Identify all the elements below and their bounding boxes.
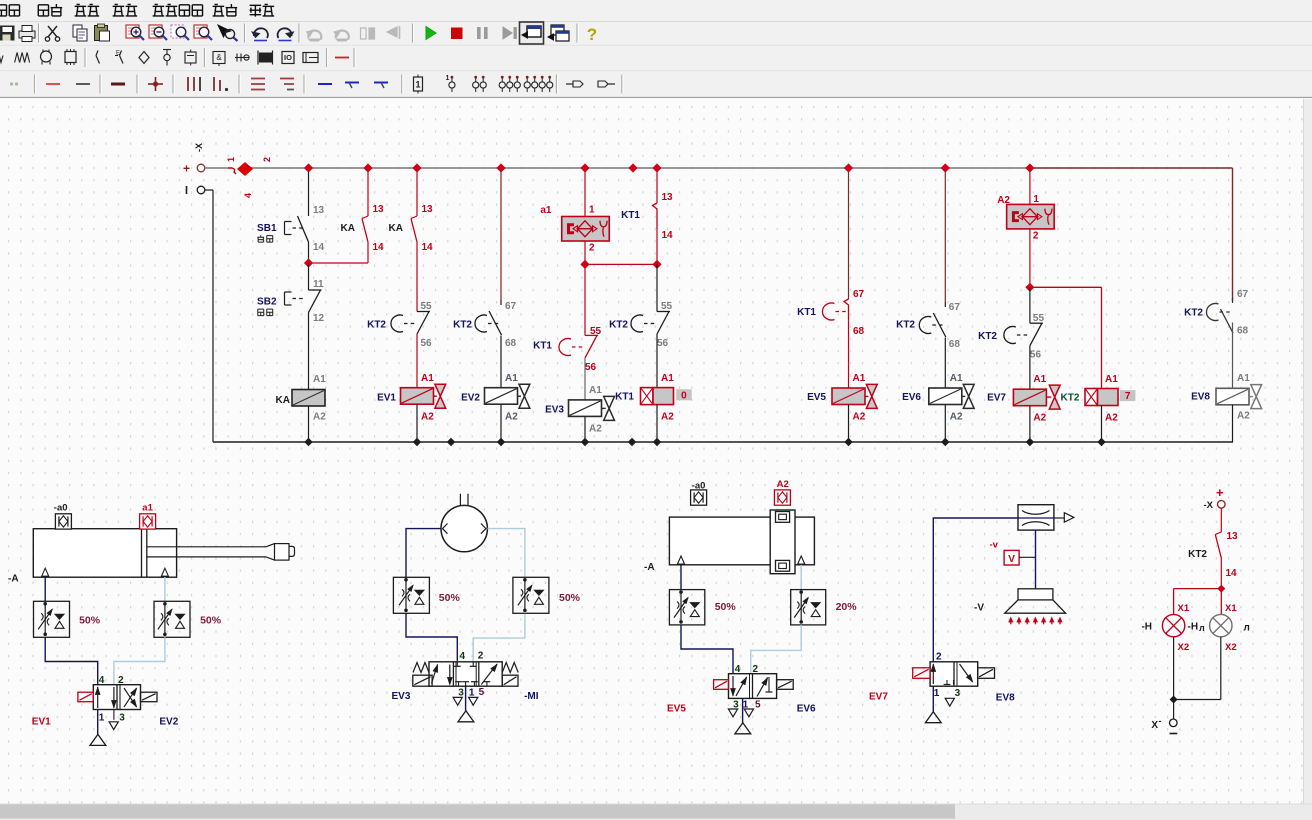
svg-text:68: 68: [853, 326, 865, 337]
svg-text:68: 68: [1237, 326, 1249, 337]
svg-text:A2: A2: [777, 479, 789, 490]
svg-text:67: 67: [505, 301, 517, 312]
svg-text:-: -: [1159, 716, 1162, 726]
svg-text:KT2: KT2: [453, 320, 472, 331]
svg-text:EV1: EV1: [377, 393, 396, 404]
svg-text:A2: A2: [313, 412, 326, 423]
svg-text:14: 14: [373, 242, 385, 253]
svg-text:50%: 50%: [439, 592, 461, 604]
svg-text:A1: A1: [661, 373, 674, 384]
svg-text:A1: A1: [1105, 374, 1118, 385]
svg-text:50%: 50%: [79, 615, 101, 627]
svg-text:-MI: -MI: [524, 691, 539, 702]
svg-text:EV3: EV3: [545, 405, 564, 416]
svg-text:-a0: -a0: [692, 480, 706, 491]
svg-text:A1: A1: [505, 373, 518, 384]
svg-text:KT2: KT2: [1184, 308, 1203, 319]
svg-text:EV6: EV6: [797, 704, 816, 715]
svg-text:A1: A1: [950, 373, 963, 384]
svg-text:1: 1: [446, 75, 450, 82]
svg-text:56: 56: [585, 362, 597, 373]
svg-text:a1: a1: [540, 205, 552, 216]
svg-text:-H: -H: [1188, 622, 1199, 633]
svg-text:A2: A2: [853, 412, 866, 423]
svg-text:A1: A1: [1237, 373, 1250, 384]
svg-text:KT1: KT1: [621, 210, 640, 221]
svg-text:KT2: KT2: [367, 320, 386, 331]
svg-text:KT2: KT2: [1061, 393, 1080, 404]
svg-text:14: 14: [422, 242, 434, 253]
svg-text:X1: X1: [1178, 603, 1190, 614]
svg-text:55: 55: [661, 301, 673, 312]
svg-text:SB1: SB1: [257, 223, 277, 234]
svg-text:SB2: SB2: [257, 297, 277, 308]
svg-text:13: 13: [373, 204, 385, 215]
svg-text:1: 1: [934, 688, 940, 699]
svg-text:A2: A2: [421, 412, 434, 423]
svg-text:4: 4: [460, 651, 466, 662]
svg-text:A1: A1: [1033, 374, 1046, 385]
svg-text:1: 1: [99, 713, 105, 724]
svg-text:2: 2: [118, 675, 124, 686]
svg-text:2: 2: [1033, 231, 1039, 242]
svg-text:+: +: [183, 162, 190, 176]
svg-text:KA: KA: [341, 223, 355, 234]
svg-text:4: 4: [735, 664, 741, 675]
svg-text:A2: A2: [1105, 413, 1118, 424]
svg-text:3: 3: [119, 713, 125, 724]
svg-text:2: 2: [753, 664, 759, 675]
svg-text:E: E: [116, 51, 120, 57]
svg-text:-V: -V: [974, 603, 984, 614]
svg-text:56: 56: [1030, 350, 1042, 361]
svg-text:67: 67: [949, 302, 961, 313]
svg-text:20%: 20%: [836, 601, 858, 613]
svg-text:A1: A1: [589, 385, 602, 396]
svg-text:13: 13: [662, 192, 674, 203]
svg-text:A2: A2: [661, 412, 674, 423]
svg-text:67: 67: [853, 289, 865, 300]
svg-text:7: 7: [1125, 391, 1131, 402]
svg-text:?: ?: [587, 25, 597, 44]
svg-text:KT2: KT2: [1188, 549, 1207, 560]
svg-text:3: 3: [955, 688, 961, 699]
svg-text:1: 1: [589, 205, 595, 216]
svg-text:1: 1: [415, 80, 420, 90]
svg-text:KT1: KT1: [797, 307, 816, 318]
svg-text:A2: A2: [589, 424, 602, 435]
svg-text:EV7: EV7: [987, 393, 1006, 404]
svg-text:л: л: [1199, 623, 1205, 633]
svg-text:56: 56: [421, 338, 433, 349]
svg-text:A1: A1: [313, 374, 326, 385]
svg-text:50%: 50%: [715, 601, 737, 613]
svg-text:EV8: EV8: [996, 693, 1015, 704]
svg-text:68: 68: [949, 339, 961, 350]
svg-text:11: 11: [313, 279, 324, 290]
svg-text:2: 2: [589, 243, 595, 254]
svg-text:A2: A2: [505, 412, 518, 423]
svg-text:-X: -X: [1204, 500, 1214, 511]
svg-text:KA: KA: [389, 223, 403, 234]
svg-text:+: +: [1216, 485, 1224, 500]
svg-text:1: 1: [1033, 194, 1039, 205]
svg-text:EV7: EV7: [869, 692, 888, 703]
svg-text:13: 13: [1227, 531, 1239, 542]
svg-text:55: 55: [421, 301, 433, 312]
svg-text:-X: -X: [194, 143, 204, 152]
svg-text:EV8: EV8: [1191, 392, 1210, 403]
svg-text:-A: -A: [644, 562, 655, 573]
svg-text:KT2: KT2: [896, 320, 915, 331]
svg-text:-v: -v: [990, 540, 999, 551]
svg-text:KA: KA: [276, 395, 290, 406]
svg-text:5: 5: [479, 687, 485, 698]
svg-text:2: 2: [478, 651, 484, 662]
svg-text:0: 0: [681, 390, 687, 401]
svg-text:X1: X1: [1225, 603, 1237, 614]
svg-text:14: 14: [1226, 568, 1238, 579]
svg-text:EV2: EV2: [461, 393, 480, 404]
svg-text:a1: a1: [142, 503, 153, 514]
svg-text:4: 4: [99, 675, 105, 686]
svg-text:KT2: KT2: [978, 331, 997, 342]
svg-text:2: 2: [936, 652, 942, 663]
svg-text:EV2: EV2: [159, 717, 178, 728]
svg-text:KT1: KT1: [615, 392, 634, 403]
svg-text:A2: A2: [1237, 411, 1250, 422]
svg-text:67: 67: [1237, 289, 1249, 300]
svg-text:KT1: KT1: [533, 341, 552, 352]
svg-text:5: 5: [755, 700, 761, 711]
svg-text:56: 56: [657, 338, 669, 349]
svg-text:-H: -H: [1141, 622, 1152, 633]
svg-text:13: 13: [313, 205, 325, 216]
svg-text:2: 2: [262, 157, 272, 162]
svg-text:&: &: [216, 53, 222, 62]
svg-text:50%: 50%: [200, 615, 222, 627]
svg-text:л: л: [1244, 623, 1250, 634]
svg-text:X2: X2: [1225, 642, 1237, 653]
svg-text:4: 4: [243, 193, 253, 198]
svg-text:13: 13: [422, 204, 434, 215]
svg-text:14: 14: [662, 230, 674, 241]
svg-text:KT2: KT2: [609, 320, 628, 331]
svg-text:EV3: EV3: [392, 691, 411, 702]
svg-text:-A: -A: [8, 574, 19, 585]
svg-text:68: 68: [505, 338, 517, 349]
svg-text:1: 1: [226, 157, 236, 162]
svg-text:12: 12: [313, 313, 325, 324]
svg-text:IO: IO: [284, 53, 292, 62]
svg-text:V: V: [1008, 554, 1015, 565]
svg-text:50%: 50%: [559, 592, 581, 604]
svg-text:EV1: EV1: [32, 717, 51, 728]
svg-text:EV5: EV5: [667, 704, 686, 715]
svg-text:X: X: [1151, 720, 1158, 731]
svg-text:-a0: -a0: [54, 503, 68, 514]
svg-text:EV6: EV6: [902, 392, 921, 403]
svg-text:A1: A1: [421, 373, 434, 384]
svg-text:EV5: EV5: [807, 392, 826, 403]
svg-text:A1: A1: [853, 373, 866, 384]
svg-text:14: 14: [313, 242, 325, 253]
svg-text:A2: A2: [950, 412, 963, 423]
svg-text:A2: A2: [1033, 413, 1046, 424]
svg-text:X2: X2: [1178, 642, 1190, 653]
svg-text:55: 55: [1033, 313, 1045, 324]
